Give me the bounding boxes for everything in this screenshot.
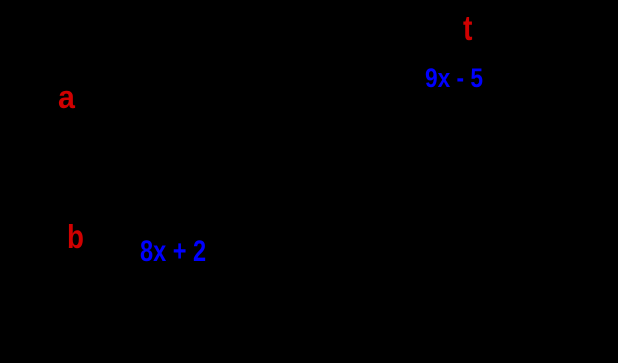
label b <box>67 220 84 253</box>
label t <box>463 11 472 46</box>
label 8x + 2 <box>140 237 206 267</box>
label a <box>58 81 75 113</box>
transversal t <box>107 5 501 355</box>
label 9x - 5 <box>425 65 483 92</box>
line b <box>30 249 590 251</box>
